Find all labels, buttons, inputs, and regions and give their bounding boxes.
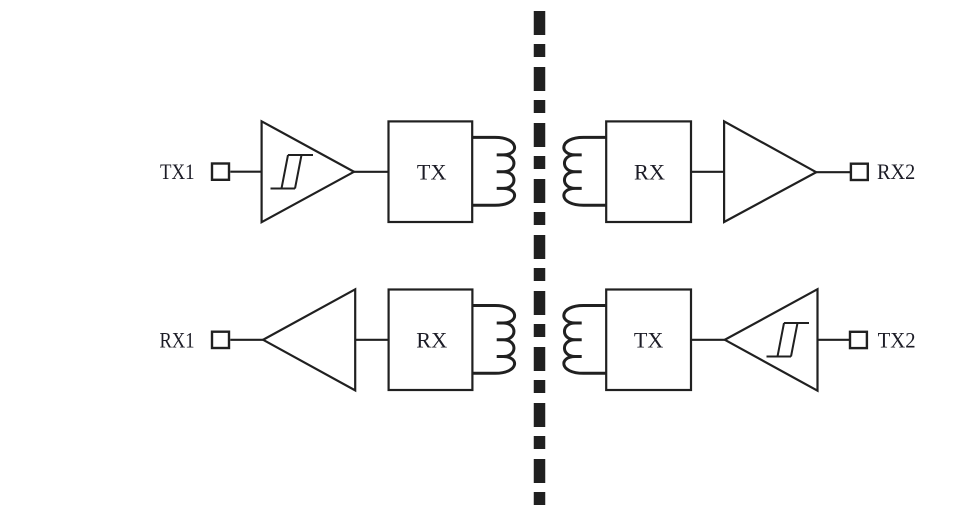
svg-text:TX: TX — [634, 328, 664, 353]
op-amp buffer U2 (points right) — [724, 121, 816, 222]
RX block (left, row 2) — [389, 290, 473, 391]
wire U4 input to TX2 pad — [818, 339, 850, 341]
transformer coil L4 (right of barrier, row 2) — [564, 306, 606, 374]
op-amp buffer U3 (points left) — [263, 289, 355, 390]
terminal pad TX1 — [212, 164, 229, 180]
hysteresis symbol in U4 — [767, 323, 810, 357]
wire RX block to amp U2 input — [691, 171, 724, 173]
terminal pad RX1 — [212, 332, 229, 348]
transformer coil L1 (left of barrier, row 1) — [472, 137, 514, 205]
svg-text:RX1: RX1 — [160, 328, 195, 353]
svg-text:TX2: TX2 — [878, 328, 916, 353]
wire U1 output to TX block — [354, 171, 389, 173]
wire U2 output to RX2 pad — [816, 171, 850, 173]
op-amp buffer U1 (Schmitt input, points right) — [262, 121, 354, 222]
isolation barrier (dashed line) — [534, 11, 546, 506]
terminal pad RX2 — [851, 164, 868, 180]
transformer coil L3 (left of barrier, row 2) — [472, 306, 514, 374]
wire RX block (row 2) to U3 — [355, 339, 388, 341]
svg-text:RX: RX — [416, 328, 447, 353]
wire TX block (row 2) to buffer U4 — [691, 339, 725, 341]
hysteresis symbol in U1 — [271, 155, 314, 189]
op-amp buffer U4 (Schmitt input, points left) — [725, 289, 818, 391]
svg-text:TX1: TX1 — [160, 159, 195, 184]
transformer coil L2 (right of barrier, row 1) — [564, 137, 606, 205]
RX block (right, row 1) — [606, 121, 691, 222]
wire TX1 pad to buffer U1 input — [230, 171, 261, 173]
terminal pad TX2 — [850, 332, 867, 348]
TX block (right, row 2) — [606, 290, 691, 391]
wire RX1 pad to amp U3 output — [230, 339, 263, 341]
svg-text:RX: RX — [634, 160, 665, 185]
TX block (left, row 1) — [389, 121, 473, 222]
svg-text:TX: TX — [417, 160, 447, 185]
svg-text:RX2: RX2 — [877, 159, 915, 184]
